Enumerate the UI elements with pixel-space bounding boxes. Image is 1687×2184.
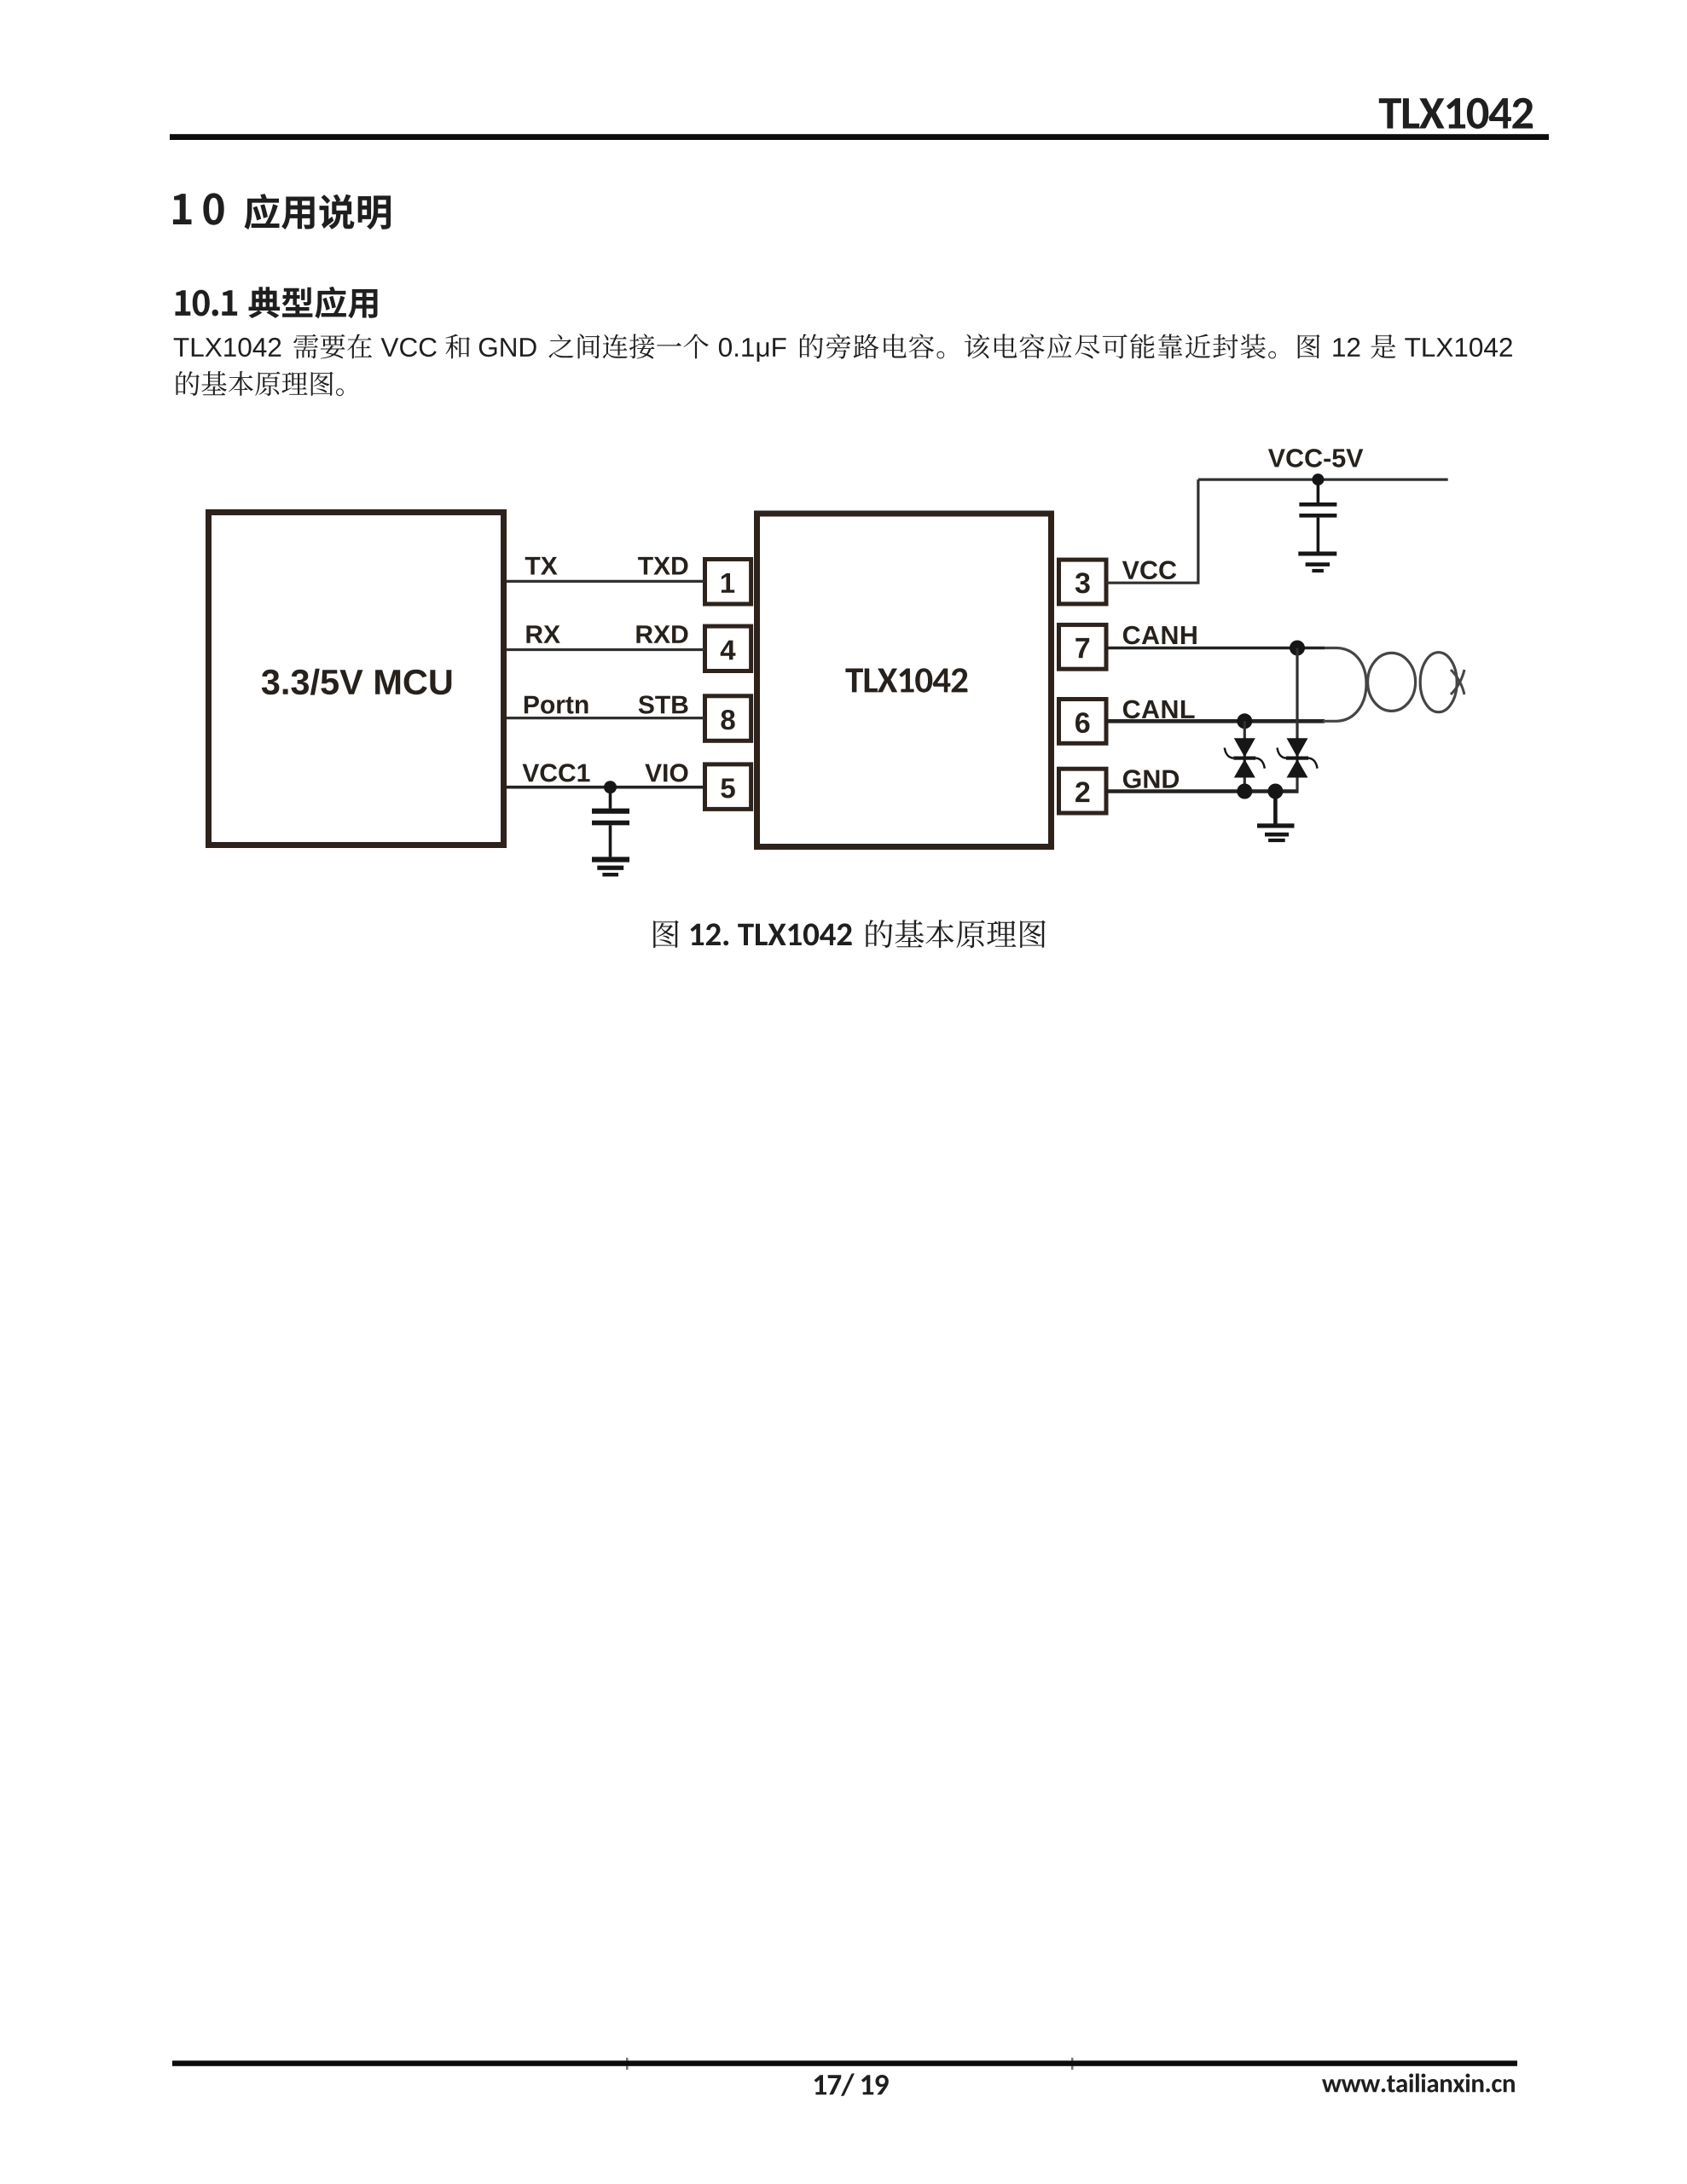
pin label RXD — [636, 625, 687, 643]
net label RX — [526, 625, 559, 643]
pin number 8 — [721, 710, 734, 729]
net label VCC — [1122, 561, 1176, 579]
ground (VCC bypass) — [1298, 552, 1336, 573]
junction node on GND (at ground symbol) — [1267, 784, 1283, 799]
pin number 7 — [1075, 638, 1089, 658]
net label VCC1 — [523, 764, 590, 781]
junction node on CANH — [1290, 641, 1305, 656]
pin number 2 — [1075, 781, 1089, 802]
STB pin 8 box — [705, 696, 751, 741]
VIO pin 5 box — [705, 764, 751, 810]
wire CANL drop to TVS D1 — [1244, 721, 1246, 791]
pin number 4 — [721, 641, 736, 660]
net label CANH — [1123, 626, 1197, 645]
CANL pin 6 box — [1059, 700, 1107, 744]
net label GND — [1123, 770, 1179, 788]
TVS diode D2 (CANH to GND) — [1278, 738, 1318, 777]
ground (VIO bypass) — [592, 857, 629, 876]
pin number 1 — [722, 573, 734, 593]
twisted pair bus (CANH/CANL) — [1323, 648, 1464, 722]
pin number 5 — [721, 779, 735, 799]
RXD pin 4 box — [705, 626, 751, 671]
wire VCC (pin 3 to VCC-5V rail) — [1106, 479, 1198, 583]
U1 label "TLX1042" — [845, 668, 967, 693]
MCU block U2 (3.3/5V MCU) — [209, 513, 504, 845]
capacitor (VCC bypass) — [1299, 479, 1336, 552]
net label VCC-5V — [1268, 449, 1363, 468]
junction node on GND (below D1) — [1237, 784, 1252, 799]
pin label VIO — [645, 764, 687, 781]
wire VCC1 (MCU to VIO pin 5) — [507, 786, 705, 789]
pin label TXD — [638, 557, 687, 575]
wire TX (MCU to TXD pin 1) — [507, 580, 705, 583]
net label TX — [525, 557, 558, 575]
wire CANH (pin 7 to bus) — [1106, 647, 1325, 650]
ground (bus side) — [1257, 792, 1295, 843]
wire CANL (pin 6 to bus) — [1106, 719, 1325, 723]
net label Portn — [525, 696, 588, 714]
TVS diode D1 (CANL to GND) — [1225, 738, 1265, 777]
VCC-5V rail — [1198, 478, 1448, 480]
VCC pin 3 box — [1059, 560, 1107, 604]
MCU label "3.3/5V MCU" — [262, 669, 452, 695]
junction node on VCC-5V rail — [1312, 473, 1324, 485]
CANH pin 7 box — [1059, 624, 1107, 669]
net label CANL — [1123, 700, 1195, 719]
wire GND (pin 2 to TVS/ground) — [1106, 789, 1299, 793]
wire RX (MCU to RXD pin 4) — [507, 648, 705, 651]
capacitor (VIO bypass) — [592, 787, 629, 857]
wire CANH drop to TVS D2 — [1296, 648, 1298, 792]
transceiver U1 TLX1042 — [757, 514, 1052, 847]
pin label STB — [639, 695, 688, 713]
junction node on CANL — [1237, 713, 1252, 729]
junction node on VCC1/VIO wire — [604, 781, 617, 793]
pin number 3 — [1075, 572, 1090, 593]
wire Portn (MCU to STB pin 8) — [507, 717, 705, 719]
pin number 6 — [1075, 712, 1090, 733]
GND pin 2 box — [1059, 769, 1107, 813]
TXD pin 1 box — [705, 560, 751, 605]
